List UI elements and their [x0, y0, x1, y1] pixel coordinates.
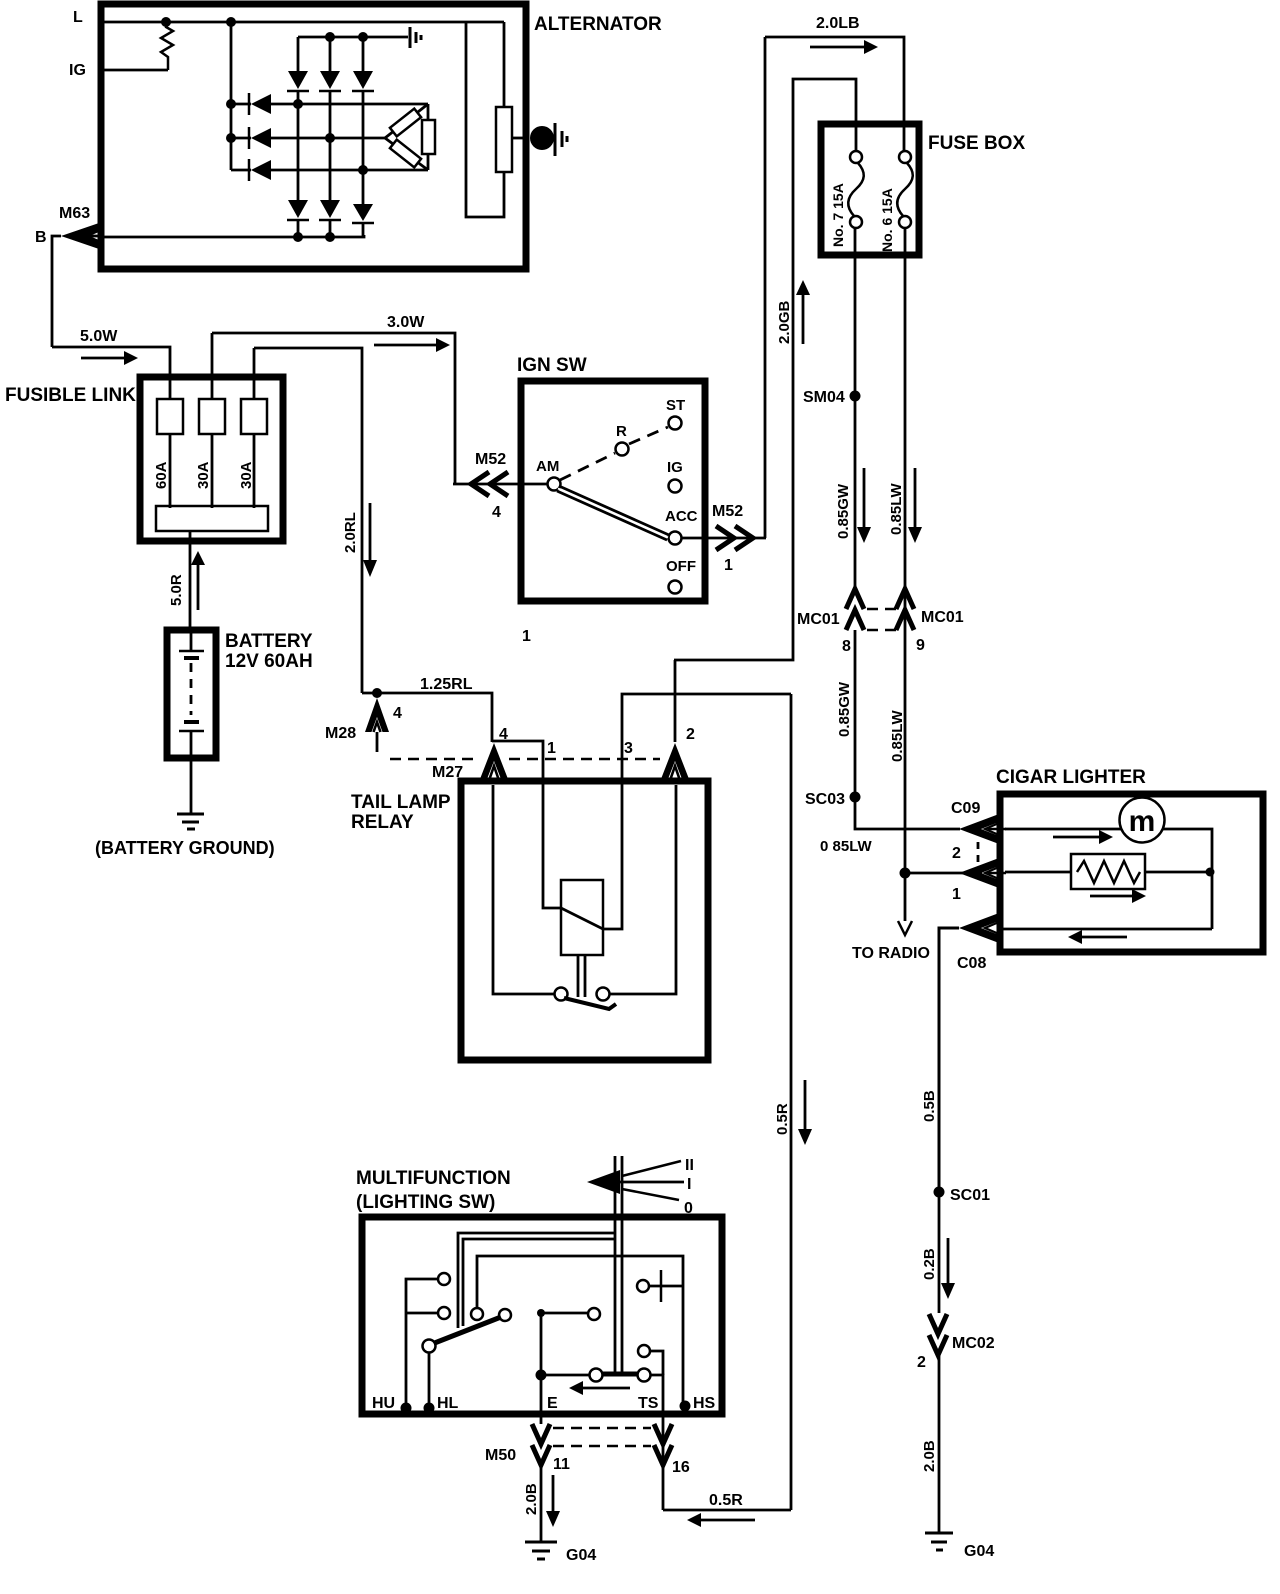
wire HL [428, 1352, 431, 1410]
svg-text:m: m [1129, 805, 1156, 838]
svg-text:60A: 60A [153, 461, 170, 489]
svg-text:IG: IG [69, 62, 86, 79]
svg-text:2: 2 [917, 1354, 926, 1371]
connector MC01 pin8 [846, 589, 864, 630]
wire L [104, 21, 504, 24]
svg-text:FUSE BOX: FUSE BOX [928, 133, 1025, 154]
svg-text:ACC: ACC [665, 508, 698, 525]
relay coil [561, 880, 603, 955]
svg-text:C08: C08 [957, 955, 986, 972]
wire stator row3 [271, 169, 428, 172]
connector C09 [959, 814, 1006, 844]
svg-text:TO RADIO: TO RADIO [852, 945, 930, 962]
dashed MC01 link upper [867, 608, 897, 611]
multifunction switch box [362, 1217, 722, 1414]
terminal ACC [669, 532, 682, 545]
dashed M27 link [509, 758, 660, 761]
wire col2 stub [329, 220, 332, 237]
wire 2.0LB [765, 37, 904, 157]
contact circle 10 [638, 1369, 651, 1382]
wire fuse2 top [211, 333, 214, 399]
svg-text:2.0B: 2.0B [523, 1483, 540, 1515]
diode D9 (col3 bottom) [353, 204, 373, 221]
svg-text:(BATTERY GROUND): (BATTERY GROUND) [95, 838, 275, 858]
dashed M28-M27 link [390, 758, 479, 761]
node SC03 [850, 792, 861, 803]
wire fuse2 bottom [211, 434, 214, 508]
svg-text:ALTERNATOR: ALTERNATOR [534, 14, 662, 35]
svg-text:IGN SW: IGN SW [517, 355, 587, 376]
connector C08 [959, 913, 999, 943]
diode D7 (col1 bottom) [288, 200, 308, 218]
svg-text:M52: M52 [712, 503, 743, 520]
svg-text:2: 2 [952, 845, 961, 862]
svg-text:SC03: SC03 [805, 791, 845, 808]
contact circle 8 [638, 1345, 650, 1357]
wire stator row2 [271, 137, 385, 140]
svg-text:FUSIBLE LINK: FUSIBLE LINK [5, 385, 136, 406]
dashed R-ST [629, 427, 668, 444]
diode D3 (col3 top) [352, 37, 374, 204]
arrow 0.85LW flow [908, 468, 922, 543]
node bridge-top col2 [325, 32, 335, 42]
node row2-col2 [325, 133, 335, 143]
svg-text:No. 7 15A: No. 7 15A [830, 183, 846, 247]
wire relay pin2 internal [610, 785, 676, 994]
svg-text:0 85LW: 0 85LW [820, 838, 873, 855]
svg-text:0.5R: 0.5R [774, 1103, 791, 1135]
node row3-col3 [358, 165, 368, 175]
connector M28 [365, 698, 389, 752]
diode D8 (col2 bottom) [320, 200, 340, 218]
svg-text:0.5R: 0.5R [709, 1492, 743, 1509]
svg-text:HS: HS [693, 1395, 716, 1412]
field coil (regulator) [496, 107, 512, 172]
terminal stub HS [680, 1401, 691, 1412]
dashed M50 link lower [553, 1445, 651, 1448]
switch wiper AM-ACC [557, 486, 669, 540]
contact circle 7 [637, 1280, 649, 1292]
svg-text:L: L [73, 9, 83, 26]
bus bar [156, 506, 268, 531]
arrow 2.0GB flow [796, 280, 810, 344]
wire fuse3 top [253, 348, 256, 399]
svg-text:ST: ST [666, 397, 685, 414]
wire SC03 to C09 [855, 797, 960, 829]
svg-text:11: 11 [553, 1456, 570, 1473]
relay contact left [555, 988, 568, 1001]
svg-text:IG: IG [667, 459, 683, 476]
terminal stub HL [424, 1403, 435, 1414]
wire 2.0B right [938, 1350, 941, 1533]
fuse No.7 15A [848, 151, 864, 228]
stator coil diagonal lower [385, 138, 428, 170]
svg-text:1.25RL: 1.25RL [420, 676, 473, 693]
arrow TO RADIO [898, 921, 912, 935]
node bridge-top col3 [358, 32, 368, 42]
wire HU [406, 1279, 438, 1410]
ground battery [177, 814, 204, 829]
alternator box [101, 4, 526, 269]
fusible link 60A [157, 399, 183, 434]
contact circle 9 [590, 1369, 603, 1382]
wire 2.0B left [540, 1460, 543, 1542]
arrow return flow [1068, 930, 1127, 944]
connector MC02 [929, 1314, 947, 1355]
wire ACC out [682, 537, 766, 540]
wire to C08 pin1 [905, 872, 982, 875]
lamp (lighter element) [1120, 798, 1165, 843]
connector M63 [61, 223, 104, 249]
ground (case, right of box) [555, 123, 567, 156]
wire relay pin4 internal [493, 785, 556, 994]
svg-text:30A: 30A [238, 461, 255, 489]
wire to radio [904, 873, 907, 921]
diode D7 cathode bar [287, 219, 309, 222]
wire 2.0GB riser [674, 79, 856, 660]
svg-text:MC01: MC01 [921, 609, 964, 626]
wire 1.25RL [362, 693, 492, 742]
wire 2.0RL top [254, 348, 362, 693]
node SC01 [934, 1187, 945, 1198]
battery cell bottom [179, 722, 204, 757]
lever position line I [593, 1181, 684, 1184]
resistor field R [161, 22, 173, 70]
dashed C09-C08 link [977, 842, 980, 864]
contact circle 3 [471, 1308, 483, 1320]
wire 0.5R riser [790, 694, 793, 1510]
node B-col2 [325, 232, 335, 242]
svg-text:HU: HU [372, 1395, 395, 1412]
svg-text:0.85LW: 0.85LW [889, 709, 906, 762]
wire heater feed [1005, 871, 1071, 874]
wire heater out [1145, 871, 1212, 874]
connector MC01 pin9 [896, 589, 914, 630]
svg-text:1: 1 [547, 740, 556, 757]
ignition switch box [521, 381, 705, 601]
fusible link 30A (middle) [199, 399, 225, 434]
arrow lamp flow [1053, 830, 1113, 844]
svg-text:16: 16 [672, 1459, 690, 1476]
stator coil vertical [422, 104, 435, 170]
svg-text:0.85GW: 0.85GW [836, 681, 853, 737]
arrow 3.0W flow [374, 338, 450, 352]
arrow 0.5R riser flow [798, 1080, 812, 1145]
node row1-col1 [293, 99, 303, 109]
terminal R [616, 443, 629, 456]
terminal IG [669, 480, 682, 493]
node heater-lamp join [1206, 868, 1215, 877]
lever position line 0 [622, 1189, 679, 1200]
wire B output [104, 235, 364, 237]
svg-text:5.0W: 5.0W [80, 328, 118, 345]
arrow 2.0RL flow [363, 503, 377, 577]
arrow heater flow [1090, 889, 1146, 903]
wire C08 drop [939, 928, 959, 1192]
svg-text:9: 9 [916, 637, 925, 654]
cigar lighter box [1000, 794, 1263, 952]
svg-text:0: 0 [684, 1200, 693, 1217]
svg-text:RELAY: RELAY [351, 812, 414, 833]
wire col1 stub [297, 220, 300, 237]
wire 0.85LW upper [904, 228, 907, 873]
connector M27 pin4 [480, 743, 508, 779]
fusible link box [140, 377, 283, 541]
contact circle HL pivot [423, 1340, 436, 1353]
svg-text:1: 1 [952, 886, 961, 903]
ground G04 right [925, 1533, 953, 1550]
svg-text:0.85LW: 0.85LW [888, 482, 905, 535]
wire battery ground [190, 757, 193, 814]
fuse box [821, 124, 919, 255]
svg-text:1: 1 [522, 628, 531, 645]
svg-text:G04: G04 [566, 1547, 596, 1564]
linkage bus [458, 1233, 616, 1328]
svg-text:SM04: SM04 [803, 389, 845, 406]
diode D5 (row2 left) [231, 127, 271, 149]
wire stator row1 [271, 103, 428, 106]
wire ACC to 2.0LB riser [764, 37, 767, 538]
wire brush [512, 137, 526, 140]
svg-text:8: 8 [842, 638, 851, 655]
wire battery feed [189, 531, 192, 627]
wire 0.5R bottom [663, 1509, 791, 1512]
contact circle 1 [438, 1273, 450, 1285]
svg-text:BATTERY: BATTERY [225, 631, 313, 652]
wire relay pin2 riser [674, 660, 677, 742]
brush dot [530, 126, 554, 150]
node L junction 2 [226, 17, 236, 27]
svg-text:2.0RL: 2.0RL [342, 512, 359, 553]
svg-text:2: 2 [686, 726, 695, 743]
node E top [537, 1309, 545, 1317]
svg-text:R: R [616, 423, 627, 440]
node row2-left [226, 133, 236, 143]
ground (alternator internal top) [410, 27, 421, 48]
dashed M50 link upper [553, 1427, 651, 1430]
fuse No.6 15A [897, 151, 913, 228]
terminal OFF [669, 581, 682, 594]
svg-text:30A: 30A [195, 461, 212, 489]
crossbar contact [660, 1270, 663, 1302]
wire circle7 to HS run [649, 1285, 683, 1288]
svg-text:TS: TS [638, 1395, 659, 1412]
svg-text:4: 4 [393, 705, 402, 722]
svg-text:M63: M63 [59, 205, 90, 222]
svg-text:M28: M28 [325, 725, 356, 742]
svg-text:12V 60AH: 12V 60AH [225, 651, 313, 672]
svg-text:TAIL LAMP: TAIL LAMP [351, 792, 451, 813]
tail lamp relay box [461, 781, 708, 1060]
turn signal wiper bar [602, 1372, 638, 1377]
node E lower [536, 1370, 547, 1381]
svg-text:II: II [685, 1157, 694, 1174]
node B-col1 [293, 232, 303, 242]
wire regulator loop left [466, 22, 504, 217]
wire B stub [52, 236, 61, 347]
svg-text:1: 1 [724, 557, 733, 574]
diode D2 (col2 top) [319, 37, 341, 200]
svg-text:4: 4 [492, 504, 501, 521]
wire fuse1 bottom [169, 434, 172, 508]
arrow 2.0B flow [546, 1475, 560, 1527]
svg-text:2.0LB: 2.0LB [816, 15, 860, 32]
node L junction 1 [161, 17, 171, 27]
svg-text:MULTIFUNCTION: MULTIFUNCTION [356, 1168, 511, 1189]
arrow 0.85GW flow [857, 468, 871, 543]
wire HS top run [477, 1256, 683, 1403]
arrow 0.5R bottom flow [687, 1513, 755, 1527]
wire 5.0W [52, 347, 170, 375]
wire IG [104, 69, 168, 72]
wire AM out [453, 483, 547, 486]
fusible link 30A (right) [241, 399, 267, 434]
svg-text:0.5B: 0.5B [921, 1090, 938, 1122]
wire relay pin1 [492, 741, 561, 908]
connector M27 pin2 [661, 743, 689, 779]
svg-text:3.0W: 3.0W [387, 314, 425, 331]
wire E column [540, 1313, 543, 1424]
terminal stub HU [401, 1403, 412, 1414]
connector M50 pin11 [532, 1424, 550, 1465]
heater element [1071, 854, 1145, 889]
svg-text:B: B [35, 229, 47, 246]
ground G04 left [525, 1542, 557, 1559]
wire fuse3 bottom [253, 434, 256, 508]
svg-text:M52: M52 [475, 451, 506, 468]
svg-text:C09: C09 [951, 800, 980, 817]
svg-text:G04: G04 [964, 1543, 994, 1560]
wire 3.0W [212, 333, 455, 484]
svg-text:M50: M50 [485, 1447, 516, 1464]
contact circle 2 [438, 1307, 450, 1319]
contact circle 4 [499, 1309, 511, 1321]
svg-text:I: I [687, 1176, 691, 1193]
terminal AM [548, 478, 561, 491]
arrow 0.2B flow [941, 1238, 955, 1299]
svg-text:(LIGHTING SW): (LIGHTING SW) [356, 1192, 495, 1213]
node row1-left [226, 99, 236, 109]
relay plunger [578, 955, 585, 997]
wire col3 stub [362, 223, 365, 237]
wire left column [230, 22, 233, 170]
connector M52 pin4 chevrons [471, 472, 508, 496]
svg-text:3: 3 [624, 740, 633, 757]
wire 0.85GW upper [854, 228, 857, 588]
svg-text:2.0B: 2.0B [921, 1440, 938, 1472]
diode D4 (row1 left) [231, 93, 271, 115]
arrow 5.0W flow [81, 351, 138, 365]
svg-text:2.0GB: 2.0GB [776, 300, 793, 344]
arrow TS flow internal [569, 1381, 630, 1395]
connector M50 pin16 [654, 1424, 672, 1465]
wire circle10 to TS [650, 1375, 663, 1510]
wire E to circle6 [541, 1312, 588, 1315]
svg-text:AM: AM [536, 458, 559, 475]
contact circle 6 [588, 1308, 600, 1320]
connector C08 pin1 [959, 858, 1006, 888]
wire relay pin3 riser [603, 694, 791, 929]
lever position line II [622, 1161, 681, 1176]
svg-text:HL: HL [437, 1395, 459, 1412]
relay contact right [597, 988, 610, 1001]
svg-text:0.85GW: 0.85GW [835, 483, 852, 539]
wire fuse1 top [169, 377, 172, 399]
wire lamp feed [1005, 829, 1212, 929]
diode D6 (row3 left) [231, 159, 271, 181]
diode D1 (col1 top) [287, 37, 309, 200]
svg-text:0.2B: 0.2B [921, 1248, 938, 1280]
headlamp wiper [432, 1317, 501, 1344]
dashed AM-R [560, 453, 615, 480]
terminal ST [669, 417, 682, 430]
svg-text:No. 6 15A: No. 6 15A [879, 188, 895, 252]
relay moving arm [564, 998, 616, 1009]
battery cell top [179, 632, 204, 658]
svg-text:OFF: OFF [666, 558, 696, 575]
wire return bottom [1001, 928, 1212, 931]
node 0.85LW-C08 [900, 868, 911, 879]
svg-text:CIGAR LIGHTER: CIGAR LIGHTER [996, 767, 1146, 788]
svg-text:SC01: SC01 [950, 1187, 990, 1204]
wire 0.2B [938, 1192, 941, 1313]
diode D8 cathode bar [319, 219, 341, 222]
diode D9 cathode bar [352, 222, 374, 225]
connector M52 pin1 chevrons [716, 526, 753, 550]
battery box [167, 630, 216, 758]
arrow 5.0R flow [191, 551, 205, 610]
wire bridge top [298, 36, 408, 39]
node M28 [372, 688, 382, 698]
stator coil diagonal upper [385, 104, 428, 138]
svg-text:MC02: MC02 [952, 1335, 995, 1352]
battery dashed middle [190, 663, 193, 715]
svg-text:E: E [547, 1395, 558, 1412]
wire E to circle9 [541, 1374, 589, 1377]
wire 0.85GW lower [854, 630, 857, 797]
lever arrow [587, 1170, 620, 1194]
arrow 2.0LB flow [810, 40, 878, 54]
node SM04 [850, 391, 861, 402]
wire circle8 link [650, 1351, 663, 1375]
dashed MC01 link lower [867, 629, 897, 632]
lever shaft [615, 1156, 622, 1374]
svg-text:5.0R: 5.0R [168, 574, 185, 606]
svg-text:MC01: MC01 [797, 611, 840, 628]
wire field coil top [503, 22, 506, 107]
